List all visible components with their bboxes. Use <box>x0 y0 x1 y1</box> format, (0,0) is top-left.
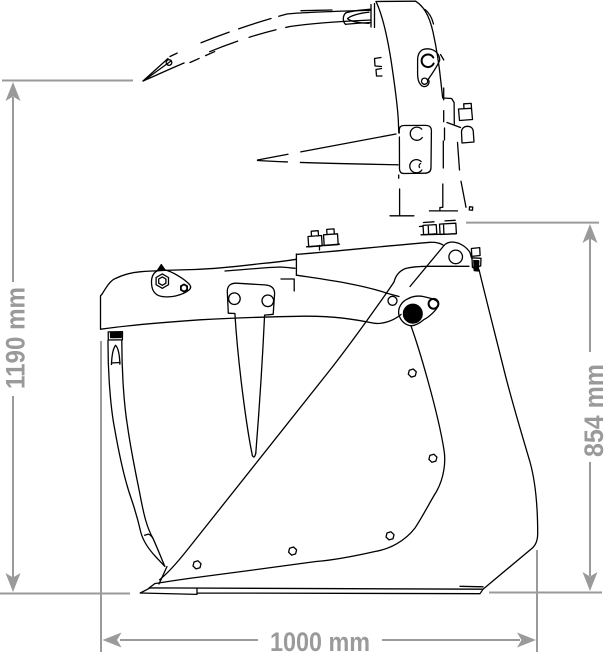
plate hole 3 <box>386 532 394 540</box>
plate hole 1 <box>408 369 416 377</box>
cylinder bolt left body 2 <box>324 229 339 246</box>
arrowhead 854 top <box>583 224 598 243</box>
bucket-top bolt right pair square 2 <box>440 220 457 234</box>
tine holder pill bottom edge <box>346 23 372 25</box>
bucket rear rim A <box>296 275 399 296</box>
boss filled pin <box>403 304 422 323</box>
link plate hex nut outer <box>156 274 168 288</box>
hydraulic cylinder left cap <box>295 254 297 275</box>
upper tine lower edge dashed-then-solid <box>184 20 371 63</box>
tine holder end verticals <box>371 4 375 28</box>
mast foot dot <box>469 207 472 210</box>
middle tine clamp block <box>399 125 431 173</box>
upper tine tip wedge lower <box>143 63 184 81</box>
frame bar bottom edge <box>101 315 401 330</box>
left tine inner edge <box>122 341 153 539</box>
mast lower right dashed edge <box>443 88 446 140</box>
left tine tip cap hook <box>145 534 153 538</box>
bucket-top bolt right pair square 1 <box>420 222 437 235</box>
whale curve (bucket back sheet and floor) <box>155 326 445 584</box>
latch piece lower <box>472 258 481 268</box>
bottom blade bottom edge <box>140 588 483 594</box>
tine holder pill top edge <box>346 9 371 13</box>
middle tine upper edge <box>258 134 397 160</box>
bolt link line <box>447 123 461 128</box>
cylinder bolt cluster base line <box>307 244 340 247</box>
central fin tip <box>252 453 255 457</box>
arrowhead 1190 top <box>6 82 21 101</box>
mast head top edge <box>376 0 416 2</box>
mast lower leg left <box>390 175 414 216</box>
tine holder inner oval <box>348 12 370 23</box>
mast right step <box>443 98 454 124</box>
mast left edge nub 1 <box>375 58 382 67</box>
arrowhead 1190 bottom <box>6 573 21 592</box>
cylinder rod top long line <box>102 259 296 294</box>
plate hole 5 <box>193 561 201 569</box>
plate hole 2 <box>429 454 437 462</box>
upper tine inner tip line <box>144 61 171 81</box>
plate front corner edge <box>159 567 167 585</box>
bracket circle left <box>229 293 241 305</box>
dimension line 1000mm horizontal <box>120 639 520 641</box>
link plate apex tick <box>157 265 165 271</box>
frame left nose vertical <box>101 295 102 330</box>
middle tine lower edge <box>258 161 399 165</box>
mast head left edge <box>376 2 399 134</box>
upper tine upper edge dashed-then-solid <box>170 10 371 56</box>
latch lower fill <box>474 261 479 272</box>
extension line bottom dim left vertical <box>100 341 102 652</box>
svg-text:1000 mm: 1000 mm <box>270 627 370 655</box>
link plate hex nut inner <box>159 277 166 285</box>
mast head inner corner line <box>425 10 434 25</box>
plate hole 4 <box>289 547 297 555</box>
left tine cross-section arch <box>112 345 120 364</box>
central bracket outline <box>227 283 274 315</box>
blade step right <box>460 585 483 588</box>
mast left edge nub 2 <box>376 69 382 77</box>
big diagonal plate edge <box>160 282 394 580</box>
ear circle <box>449 250 463 264</box>
side plate ear <box>410 242 472 287</box>
far wall nose <box>281 279 294 291</box>
arrowhead 1000 right <box>517 633 536 648</box>
extension line right-top (bucket top level) <box>466 222 599 224</box>
link plate outline <box>151 270 190 297</box>
side plate top-left corner and top edge <box>394 266 469 282</box>
left tine outer edge <box>108 341 165 567</box>
arrowhead 1000 left <box>103 633 122 648</box>
hole near boss left <box>388 296 397 305</box>
clamp lobe tick <box>419 164 420 168</box>
mast teardrop plate outline <box>418 49 440 87</box>
clamp lobe arc bottom <box>410 160 422 173</box>
bottom blade top edge <box>140 588 483 593</box>
left tine clamp band fill <box>111 333 122 338</box>
dimension line 1190mm vertical <box>12 97 14 578</box>
extension line right-bottom (ground level) <box>489 592 602 594</box>
extension line bottom dim right vertical <box>536 550 538 652</box>
arrowhead 854 bottom <box>583 572 598 591</box>
extension line top-left (tine tip level) <box>2 80 133 82</box>
cylinder bolt leg <box>319 245 321 250</box>
upper tine doubled line near holder <box>301 9 332 12</box>
bolt right of mast upper <box>459 108 473 120</box>
tine holder pill left end <box>343 13 346 24</box>
boss small circle <box>429 299 439 309</box>
bracket circle right <box>262 295 274 307</box>
dimension line 854mm vertical <box>589 238 591 576</box>
left tine tip inner edge <box>153 538 165 566</box>
left tine cross line <box>111 362 120 365</box>
mast teardrop small circle <box>422 78 428 84</box>
bolt right of mast lower (padlock) <box>462 126 475 143</box>
mast lower leg right diagonal <box>458 142 467 207</box>
hydraulic cylinder top edge <box>296 242 443 254</box>
floor-blade left connection <box>149 584 155 589</box>
latch tick <box>473 268 478 271</box>
cylinder bolt left body 1 <box>308 231 322 247</box>
extension line bottom-left (ground level) <box>0 593 130 595</box>
bolt cap upper <box>464 103 472 108</box>
left tine clamp band <box>108 332 122 340</box>
mast head right edge <box>416 1 443 98</box>
upper tine tip wedge upper <box>143 59 168 82</box>
upper tine tip detail circle <box>166 60 172 66</box>
cylinder rod lower edge <box>225 267 295 271</box>
central fin left edge <box>235 314 253 456</box>
mast lower leg middle <box>429 141 457 211</box>
bolt pair base line <box>421 233 456 236</box>
mast right edge tick <box>441 55 444 61</box>
mast teardrop big circle C-arc <box>422 54 434 67</box>
upper tine short dash row <box>190 51 216 63</box>
side plate right edge <box>479 270 538 590</box>
boss teardrop hull <box>399 296 439 326</box>
clamp lobe arc top <box>410 127 422 140</box>
link plate small hex <box>181 284 187 291</box>
svg-text:854 mm: 854 mm <box>579 364 604 457</box>
latch piece upper <box>471 248 480 257</box>
svg-text:1190 mm: 1190 mm <box>1 287 31 389</box>
central fin right edge <box>256 315 265 453</box>
